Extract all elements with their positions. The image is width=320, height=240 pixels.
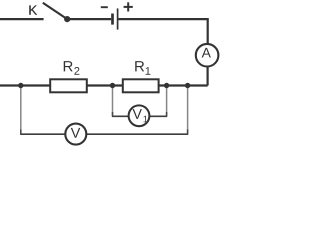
wire main middle row bbox=[0, 84, 208, 86]
node junction left bbox=[18, 83, 23, 88]
voltmeter label V bbox=[71, 128, 81, 138]
node R1 right bbox=[164, 83, 169, 88]
label R2 bbox=[64, 61, 80, 75]
voltmeter V1 circle bbox=[129, 105, 150, 126]
wire voltmeter V bottom right horizontal bbox=[76, 133, 188, 135]
wire corner stub V1 left bbox=[112, 112, 114, 116]
label K bbox=[29, 5, 37, 14]
wire corner stub bottom right bbox=[187, 130, 189, 135]
wire voltmeter V left vertical bbox=[20, 86, 22, 134]
wire voltmeter V1 left vertical bbox=[112, 86, 114, 116]
label R1 bbox=[135, 61, 150, 75]
node R1 left bbox=[110, 83, 115, 88]
wire top left to switch contact bbox=[0, 18, 44, 20]
node bottom branch bbox=[185, 83, 190, 88]
label minus bbox=[101, 6, 108, 8]
wire corner stub bottom left bbox=[20, 130, 22, 135]
resistor R1 bbox=[123, 79, 159, 92]
wire voltmeter V1 left horizontal bbox=[112, 115, 139, 117]
switch K blade bbox=[43, 3, 67, 19]
resistor R2 bbox=[50, 79, 87, 92]
wire voltmeter V1 right horizontal bbox=[139, 115, 167, 117]
voltmeter label V1 bbox=[133, 109, 148, 122]
switch hinge node bbox=[64, 16, 70, 22]
label plus bbox=[124, 2, 133, 11]
battery negative plate bbox=[111, 14, 114, 25]
wire voltmeter V1 right vertical bbox=[166, 86, 168, 116]
wire switch to battery bbox=[67, 18, 111, 20]
wire corner stub V1 right bbox=[166, 112, 168, 116]
wire voltmeter V bottom left horizontal bbox=[20, 133, 76, 135]
voltmeter V circle bbox=[65, 124, 86, 145]
wire battery to ammeter bbox=[119, 19, 208, 52]
battery positive plate bbox=[117, 8, 119, 29]
wire voltmeter V right vertical bbox=[187, 86, 189, 134]
ammeter A circle bbox=[196, 44, 219, 67]
wire ammeter to node row bbox=[207, 58, 209, 86]
ammeter label A bbox=[202, 48, 211, 58]
